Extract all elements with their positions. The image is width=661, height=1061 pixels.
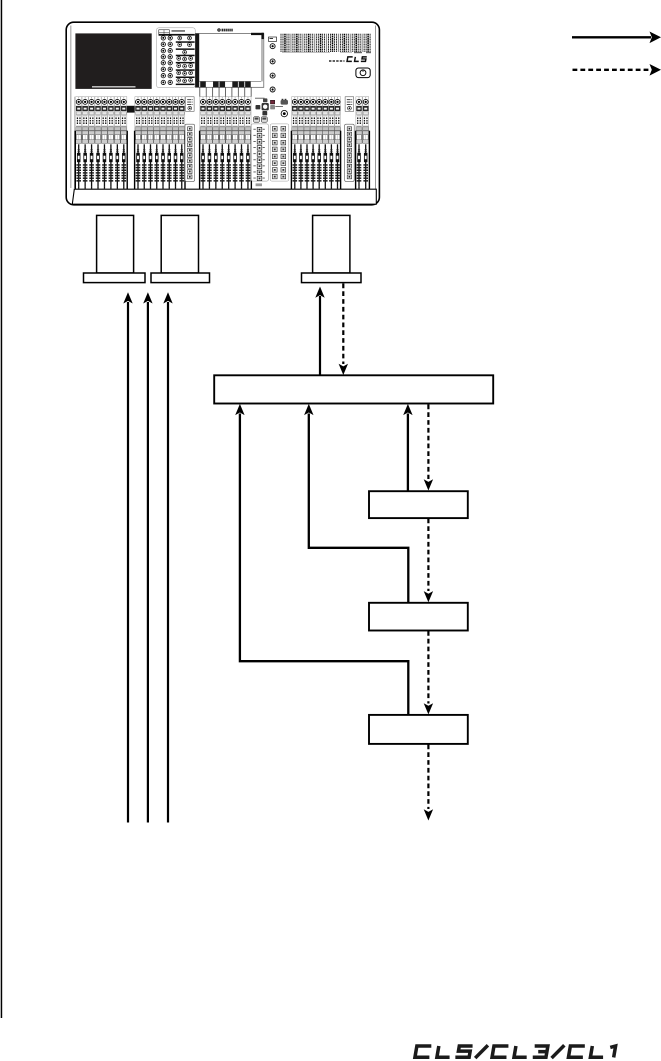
connector leg 1 <box>84 215 146 282</box>
console CL5 body <box>66 22 379 205</box>
dashed arrow box2 to box3 <box>424 519 433 603</box>
legend dashed arrow <box>573 64 661 76</box>
console front strip <box>72 189 376 204</box>
red cue button <box>270 100 274 104</box>
box1 <box>214 375 493 403</box>
dashed arrow box4 out <box>424 745 433 821</box>
selected channel panel <box>157 28 196 88</box>
user defined keys panel <box>270 124 289 181</box>
arrow box3 to box1 <box>304 404 408 603</box>
box3 <box>369 603 468 631</box>
CL5/CL3/CL1 logo <box>415 1045 616 1058</box>
YAMAHA logo <box>218 29 233 32</box>
meter bridge <box>281 34 371 54</box>
page border line left <box>1 0 3 1018</box>
arrow console up from box1 <box>315 287 324 376</box>
box2 <box>369 491 468 518</box>
dashed arrow console down to box1 <box>339 284 348 376</box>
long arrow 1 <box>123 292 132 822</box>
data knob column <box>269 37 277 92</box>
channel strips block C <box>199 97 252 189</box>
long arrow 3 <box>163 292 172 822</box>
monitor section <box>251 98 289 187</box>
connector leg 3 <box>302 215 362 282</box>
dashed arrow box3 to box4 <box>424 631 433 714</box>
box4 <box>369 715 468 744</box>
touch screen <box>195 33 263 88</box>
channel strips block D <box>291 97 342 189</box>
channel strips block A <box>75 97 128 189</box>
arrow box2 to box1 <box>403 404 412 491</box>
power button <box>356 68 370 78</box>
console main screen (black) <box>75 33 151 89</box>
scene memory rows <box>251 124 268 181</box>
block separator square <box>127 106 135 113</box>
long arrow 2 <box>143 292 152 822</box>
bank select column left <box>185 97 195 182</box>
connector leg 2 <box>151 215 210 282</box>
master strips <box>355 97 370 189</box>
channel strips block B <box>134 97 186 189</box>
arrow box4 to box1 <box>235 404 408 715</box>
talkback connectors <box>254 117 260 122</box>
CL5 logo on console <box>329 57 367 62</box>
bank select column right <box>345 97 355 182</box>
legend solid arrow <box>572 32 661 44</box>
screen lower band <box>200 81 251 96</box>
phones jacks <box>275 106 283 108</box>
dashed arrow box1 to box2 <box>424 405 433 491</box>
